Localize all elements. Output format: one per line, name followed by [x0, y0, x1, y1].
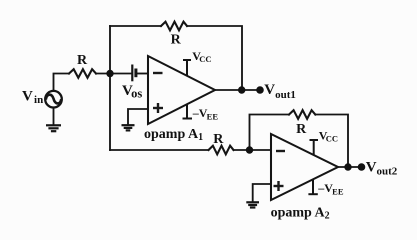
svg-text:R: R	[213, 132, 224, 147]
svg-text:R: R	[296, 122, 307, 137]
svg-text:R: R	[77, 53, 88, 68]
svg-text:opamp A1: opamp A1	[144, 127, 203, 143]
svg-text:Vos: Vos	[122, 83, 142, 101]
svg-text:–VEE: –VEE	[192, 106, 219, 122]
svg-text:R: R	[171, 32, 182, 47]
svg-text:Vout1: Vout1	[264, 82, 296, 101]
svg-text:Vin: Vin	[22, 89, 43, 106]
svg-text:VCC: VCC	[319, 129, 338, 144]
svg-text:VCC: VCC	[192, 49, 211, 64]
svg-text:Vout2: Vout2	[366, 159, 398, 177]
svg-text:opamp A2: opamp A2	[271, 205, 330, 221]
svg-text:–VEE: –VEE	[317, 181, 344, 197]
